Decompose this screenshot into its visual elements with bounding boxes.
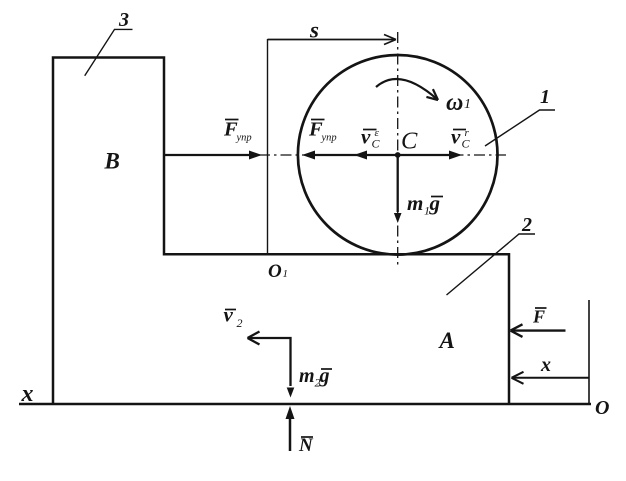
- svg-text:1: 1: [464, 97, 471, 112]
- svg-text:A: A: [438, 328, 455, 353]
- svg-text:m: m: [407, 191, 423, 215]
- svg-text:2: 2: [521, 214, 532, 236]
- label Fupr (left): [223, 119, 252, 144]
- svg-text:упр: упр: [321, 133, 337, 144]
- right reference line: [588, 300, 590, 403]
- svg-text:s: s: [309, 18, 319, 43]
- svg-text:N: N: [298, 435, 314, 456]
- x dimension arrow (points left): [512, 372, 590, 384]
- cart outline (blocks B and A, one piece): [53, 58, 509, 405]
- label m2g: [299, 365, 332, 390]
- leader line for label 3: [85, 29, 133, 75]
- svg-text:x: x: [21, 381, 34, 407]
- label F (applied): [532, 307, 547, 327]
- svg-text:m: m: [299, 365, 315, 387]
- svg-text:C: C: [372, 137, 381, 151]
- s dimension arrow: [268, 35, 397, 45]
- svg-text:B: B: [104, 149, 120, 174]
- label vC^r: [451, 125, 471, 151]
- svg-text:g: g: [429, 191, 441, 215]
- leader line for label 2: [447, 234, 536, 295]
- svg-text:v: v: [451, 125, 461, 149]
- leader line for label 1: [485, 110, 555, 146]
- velocity v2 arrow (left then down corner): [248, 332, 291, 387]
- weight arrow m1g (down from C): [394, 155, 402, 223]
- center point C: [395, 152, 401, 158]
- horizontal dash-dot centerline: [259, 154, 506, 156]
- svg-text:F: F: [532, 307, 545, 327]
- label w1: [446, 90, 471, 116]
- svg-text:x: x: [540, 354, 551, 376]
- label m1g: [407, 191, 443, 218]
- reaction arrow Fupr inside circle (points left): [302, 151, 398, 160]
- svg-text:O: O: [268, 261, 282, 282]
- svg-text:O: O: [595, 397, 609, 419]
- label N: [298, 435, 314, 456]
- svg-text:1: 1: [283, 268, 289, 280]
- label O1: [268, 261, 288, 282]
- applied force arrow F (points left at block A right side): [511, 324, 566, 337]
- svg-text:2: 2: [237, 316, 243, 330]
- svg-text:C: C: [401, 128, 418, 155]
- normal force arrow N (up from below ground): [286, 406, 295, 451]
- svg-text:v: v: [224, 303, 234, 327]
- roller circle 1: [298, 55, 498, 255]
- ground line / x-axis: [19, 403, 591, 406]
- svg-text:v: v: [361, 125, 371, 149]
- s reference vertical line: [267, 39, 269, 254]
- vertical dash-dot centerline: [397, 32, 399, 266]
- svg-text:3: 3: [118, 9, 129, 31]
- label vC^e: [361, 125, 381, 151]
- velocity vC^r arrow (points right): [398, 151, 462, 160]
- angular velocity arc w1: [376, 79, 438, 100]
- svg-text:упр: упр: [236, 133, 252, 144]
- label Fupr (inside circle): [308, 119, 337, 144]
- velocity vC^e arrowhead (points left, on same line): [354, 151, 367, 160]
- svg-text:1: 1: [540, 86, 550, 108]
- weight arrowhead m2g (down, to ground): [287, 388, 295, 398]
- svg-text:ω: ω: [446, 90, 463, 116]
- label v2: [224, 303, 243, 331]
- svg-text:C: C: [462, 137, 471, 151]
- spring force arrow Fupr (from block B): [164, 151, 262, 160]
